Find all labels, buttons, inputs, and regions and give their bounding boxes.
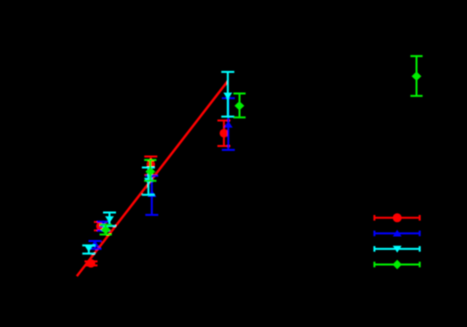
red series point 3 error bar	[144, 157, 157, 176]
legend entry red circle marker	[393, 213, 402, 222]
legend entry cyan triangle marker	[393, 246, 402, 253]
blue series point 4 triangle marker	[224, 121, 233, 128]
legend entry cyan line	[374, 246, 419, 252]
blue series point 2 triangle marker	[99, 220, 108, 227]
green series point 3 diamond marker	[235, 101, 245, 110]
red fit line	[77, 81, 228, 276]
green series point 1 diamond marker	[101, 225, 111, 234]
red series point 3 circle marker	[147, 160, 156, 169]
legend entry red line	[374, 215, 419, 221]
green series point 4 error bar	[410, 56, 422, 96]
red series point 4 error bar	[217, 121, 230, 147]
red series point 1 circle marker	[87, 259, 96, 268]
blue series point 2 error bar	[97, 222, 110, 231]
cyan series point 4 error bar	[221, 72, 234, 117]
blue series point 3 error bar	[145, 176, 158, 215]
cyan series point 3 error bar	[142, 168, 155, 195]
red series point 2 circle marker	[96, 222, 105, 231]
cyan series point 4 triangle marker	[223, 93, 232, 100]
cyan series point 1 error bar	[82, 245, 95, 253]
green series point 2 error bar	[144, 160, 156, 181]
cyan series point 3 triangle marker	[144, 178, 153, 185]
blue series point 3 triangle marker	[148, 190, 157, 197]
legend entry green diamond marker	[393, 260, 402, 269]
cyan series point 2 triangle marker	[105, 216, 114, 223]
green series point 1 error bar	[100, 225, 112, 235]
legend entry green line	[374, 262, 419, 268]
legend entry blue line	[374, 231, 419, 237]
green series point 4 diamond marker	[412, 72, 422, 81]
red series point 2 error bar	[94, 222, 107, 230]
red series point 1 error bar	[85, 261, 98, 265]
green series point 3 error bar	[233, 94, 245, 118]
blue series point 1 error bar	[89, 241, 102, 249]
blue series point 4 error bar	[222, 98, 235, 150]
legend entry blue triangle marker	[393, 230, 402, 237]
cyan series point 1 triangle marker	[84, 245, 93, 252]
cyan series point 2 error bar	[103, 213, 116, 226]
red series point 4 circle marker	[220, 129, 229, 138]
green series point 2 diamond marker	[145, 167, 155, 176]
blue series point 1 triangle marker	[91, 240, 100, 247]
